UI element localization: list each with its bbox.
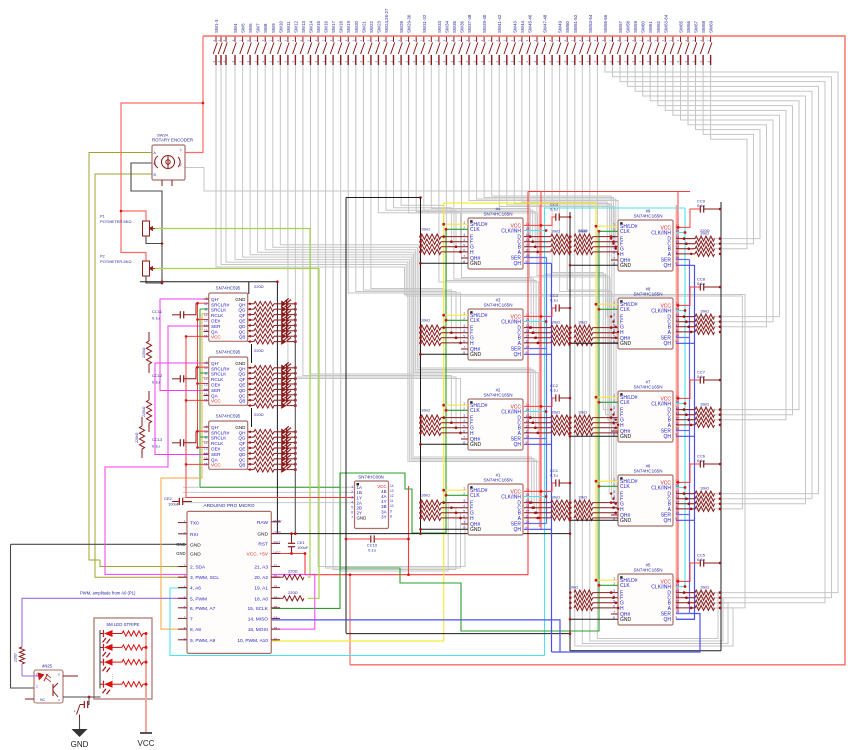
resistor R pull right #9 row 3 — [695, 251, 715, 256]
junction gnd stub dot #1 — [419, 528, 422, 531]
wire SW wire to U-R1 input 0 — [522, 65, 611, 317]
wire green hc00 link1 — [412, 532, 446, 534]
svg-text:QH': QH' — [211, 425, 219, 430]
resistor R pull #3 left row 1 — [421, 330, 441, 335]
resistor R pull #5 left row 1 — [574, 595, 593, 600]
wire VCC branch to potmeters — [121, 103, 203, 261]
svg-text:0.1u: 0.1u — [697, 557, 705, 562]
svg-text:QA: QA — [211, 457, 219, 462]
wire VCC right column bus thick — [675, 205, 677, 610]
switch symbol at x=265 — [262, 36, 266, 65]
switch symbol at x=409 — [406, 36, 410, 65]
wire wire #6 right row 1 — [676, 498, 695, 500]
svg-text:GND: GND — [235, 361, 246, 366]
resistor R pull right #6 row 1 — [695, 496, 715, 501]
svg-text:1: 1 — [351, 485, 353, 489]
junction maze dot (689,249) — [688, 248, 690, 250]
svg-text:0.1u: 0.1u — [368, 548, 376, 553]
IC shift register U3 SN74HC595 — [209, 421, 248, 469]
capacitor CC11 0.1u — [179, 311, 181, 318]
wire wire led 2,5 — [274, 458, 281, 460]
wire blue QH stub #6 — [676, 519, 695, 521]
wire green 595 branch — [200, 486, 340, 488]
wire gnd bottom rail — [346, 633, 570, 635]
junction gnd junction topleft — [419, 196, 422, 199]
junction maze dot (689,420) — [688, 419, 690, 421]
wire SW wire to U-R4 right input 0 — [597, 65, 718, 639]
junction pin dot 2,1 — [249, 436, 251, 438]
junction dot mid common 3 #3 — [569, 342, 572, 345]
junction dot mid common 1 #4 — [569, 240, 572, 243]
junction dot #5 left pin 3 — [617, 607, 620, 610]
wire VCC top bus / right edge / bottom — [203, 36, 845, 665]
switch symbol at x=477 — [474, 36, 478, 65]
junction dot mid common 0 #3 — [569, 326, 572, 329]
junction green junction #7 — [598, 401, 601, 404]
svg-text:SW31-32: SW31-32 — [422, 14, 427, 33]
junction dot #4 left common 2 — [419, 246, 422, 249]
wire wire 595 out 2,1 — [248, 436, 254, 438]
svg-text:SW53-54: SW53-54 — [588, 14, 593, 33]
LED D2 — [281, 306, 286, 313]
resistor R pull mid-left #1 row 3 — [551, 515, 571, 520]
wire SW wire to U-R4 right input 1 — [613, 65, 832, 598]
wire SW wire to U-L2 input 0 — [311, 65, 444, 418]
wire orange rclk stub3 — [202, 441, 209, 443]
wire arduino pin stub 4, A6 — [178, 587, 187, 589]
resistor R pull #4 left row 1 — [421, 239, 441, 244]
svg-text:QB: QB — [239, 463, 246, 468]
junction maze dot (614,322) — [612, 321, 614, 323]
svg-text:GND: GND — [235, 425, 246, 430]
LED cathode bar group 1 — [286, 364, 288, 402]
wire SW wire to U-R4 right input 1 — [590, 65, 723, 641]
LED D20 — [281, 445, 286, 452]
switch symbol at x=620 — [617, 36, 621, 65]
wire blue left SER bus — [546, 258, 548, 524]
svg-text:220Ω: 220Ω — [578, 228, 588, 233]
svg-text:TX0: TX0 — [190, 521, 199, 527]
wire yellow SH/LD stub #5 — [596, 579, 618, 581]
wire arduino right stub 19, A1 — [271, 587, 280, 589]
wire SW wire to U-R0 input 2 — [477, 65, 616, 249]
switch symbol at x=416 — [413, 36, 417, 65]
wire wire led 0,6 — [274, 335, 281, 337]
switch symbol at x=439 — [436, 36, 440, 65]
wire ce2 left — [172, 501, 180, 503]
svg-text:9: 9 — [390, 509, 392, 513]
svg-text:13: 13 — [390, 489, 394, 493]
svg-text:10kΩ: 10kΩ — [421, 319, 430, 323]
wire blue SER stub #7 — [676, 430, 690, 432]
svg-text:220kΩ: 220kΩ — [142, 347, 146, 358]
svg-text:SW17: SW17 — [331, 20, 336, 33]
junction yellow junction #8 — [595, 303, 598, 306]
wire olive encoder A — [89, 153, 152, 561]
resistor R 220 out 1,1 — [254, 371, 274, 376]
junction led bus dot 2,1 — [294, 436, 297, 439]
resistor R pull mid-right row 3 #3 — [574, 340, 593, 345]
junction pin dot 1,1 — [249, 372, 251, 374]
svg-text:VCC: VCC — [211, 399, 221, 404]
switch symbol at x=545 — [542, 36, 546, 65]
wire gnd stub #5 — [570, 618, 618, 620]
wire arduino right stub 15, SCLK — [271, 607, 280, 609]
IC microcontroller ARDUINO PRO MICRO — [187, 511, 271, 653]
wire wire right-col feed row 2 #2 — [593, 427, 618, 429]
junction dot #4 right pin 3 — [536, 251, 539, 254]
wire arduino pin stub TX0 — [178, 522, 187, 524]
switch symbol at x=258 — [255, 36, 259, 65]
wire wire #2 left row 1 — [441, 422, 468, 424]
wire blue SER stub #4 — [524, 257, 547, 259]
wire wire #5 left row 0 — [593, 592, 618, 594]
junction maze dot (689,327) — [688, 326, 690, 328]
wire SW wire to U-L0 input 0 — [401, 65, 444, 237]
wire cyan stub #9 — [676, 232, 685, 234]
svg-text:3: 3 — [351, 495, 353, 499]
wire red srclr stub y320 — [198, 319, 210, 321]
svg-text:0.1u: 0.1u — [550, 473, 558, 478]
junction red vcc junction 464 — [185, 463, 188, 466]
junction led bus dot 0,2 — [294, 313, 297, 316]
svg-text:SW18: SW18 — [339, 20, 344, 33]
capacitor CE2 — [178, 498, 180, 505]
resistor R pull mid-left #1 row 2 — [551, 510, 571, 515]
resistor stripe resistor 2 — [122, 660, 143, 665]
junction dot right common #6 0 — [719, 492, 722, 495]
wire wire led out 0,5 — [287, 330, 296, 332]
wire yellow bottom run to arduino pin10 — [271, 640, 444, 642]
svg-text:10kΩ: 10kΩ — [569, 586, 578, 590]
wire SW wire to U-R4 right input 3 — [575, 65, 733, 646]
svg-text:SW39-40: SW39-40 — [482, 14, 487, 33]
wire yellow right column bus — [595, 203, 597, 580]
svg-text:GND: GND — [620, 434, 632, 440]
wire SW wire to U-L0 right input 1 — [424, 65, 533, 242]
svg-text:SN74HC165N: SN74HC165N — [633, 385, 662, 390]
svg-text:10kΩ: 10kΩ — [700, 310, 709, 314]
wire yellow top rail — [444, 202, 596, 204]
wire green left column bus — [445, 229, 447, 533]
junction dot mid common 0 #2 — [569, 416, 572, 419]
switch symbol at x=529 — [527, 36, 531, 65]
junction dot mid common 1 #2 — [569, 421, 572, 424]
switch symbol at x=280 — [278, 36, 282, 65]
wire blue QH stub #7 — [676, 435, 695, 437]
junction vcc dot #2 — [540, 405, 543, 408]
svg-text:QC: QC — [239, 329, 247, 334]
resistor R pull mid-right row 2 #4 — [574, 244, 593, 249]
wire cap wire #3 — [559, 307, 570, 309]
junction dot #5 right pin 0 — [683, 591, 686, 594]
wire red srclr stub y448 — [198, 447, 210, 449]
svg-text:13: 13 — [204, 446, 208, 450]
resistor R 220 out 0,1 — [254, 307, 274, 312]
svg-text:POTMETER-5KΩ: POTMETER-5KΩ — [100, 219, 131, 224]
resistor R pull mid-right row 3 #1 — [574, 515, 593, 520]
wire SW wire to U-L1 right input 1 — [454, 65, 534, 333]
resistor R 220 out 2,4 — [254, 451, 274, 456]
svg-text:4, A6: 4, A6 — [190, 586, 201, 592]
junction dot #1 left pin 0 — [442, 501, 445, 504]
junction gnd junction bottom — [569, 632, 572, 635]
resistor R 220 out 0,4 — [254, 323, 274, 328]
wire wire led 0,2 — [274, 314, 281, 316]
wire wire #9 right row 3 — [676, 253, 695, 255]
wire wire led 0,3 — [274, 319, 281, 321]
junction maze dot (618,332) — [617, 331, 619, 333]
resistor R pull mid-right row 3 #4 — [574, 249, 593, 254]
svg-text:QH: QH — [664, 263, 672, 269]
svg-text:QG: QG — [238, 436, 246, 441]
junction gnd stub dot #9 — [569, 264, 572, 267]
resistor R pull #4 left row 0 — [421, 234, 441, 239]
svg-text:SW67: SW67 — [694, 20, 699, 33]
junction pin dot 1,3 — [249, 383, 251, 385]
resistor R pull right #6 row 0 — [695, 491, 715, 496]
svg-text:SW15: SW15 — [316, 20, 321, 33]
svg-text:QD: QD — [239, 388, 247, 393]
resistor R pull mid-left #4 row 3 — [551, 249, 571, 254]
junction maze dot (451,242) — [450, 241, 452, 243]
wire wire #4 right row 1 — [524, 241, 551, 243]
wire wire led 2,6 — [274, 463, 281, 465]
svg-text:220Ω: 220Ω — [14, 653, 18, 662]
wire SW wire to U-R2 input 2 — [537, 65, 616, 420]
wire SW wire to U-R4 right input 2 — [620, 65, 825, 603]
svg-text:3: 3 — [613, 313, 615, 317]
wire SW wire to U-R0 right input 2 — [689, 65, 747, 249]
wire 595 stub 0,5 — [204, 325, 209, 327]
wire gnd top rail — [346, 197, 421, 199]
svg-text:SW66: SW66 — [686, 20, 691, 33]
capacitor CC12 0.1u — [179, 375, 181, 382]
wire VCC left column riser — [527, 192, 529, 575]
svg-text:13: 13 — [204, 318, 208, 322]
IC shift register #3 SN74HC165N — [468, 309, 523, 360]
junction dot right-col pin 2 #4 — [615, 246, 618, 249]
junction dot right-col pin 1 #3 — [612, 331, 615, 334]
LED D19 — [281, 439, 286, 446]
wire cap gnd wire2 — [80, 704, 84, 706]
junction dot right-col pin 1 #4 — [612, 240, 615, 243]
junction maze dot (536,338) — [535, 337, 537, 339]
svg-text:SW60: SW60 — [641, 20, 646, 33]
wire wire led 2,1 — [274, 436, 281, 438]
svg-text:8: 8 — [390, 514, 392, 518]
junction maze dot (535,247) — [534, 246, 536, 248]
wire SW wire to U-L1 input 1 — [363, 65, 451, 333]
junction pin dot 1,7 — [249, 404, 251, 406]
svg-text:SW22: SW22 — [369, 20, 374, 33]
svg-text:21, A3: 21, A3 — [254, 565, 268, 571]
svg-text:10: 10 — [204, 366, 208, 370]
junction red junction 303 — [196, 302, 199, 305]
svg-text:P2: P2 — [100, 255, 105, 259]
svg-text:CLK/INH: CLK/INH — [651, 485, 671, 491]
junction cyan dot #7 — [684, 402, 687, 405]
junction maze dot (616,420) — [615, 419, 617, 421]
LED D24 — [281, 466, 286, 473]
junction dot #5 left pin 1 — [612, 596, 615, 599]
svg-text:SW50: SW50 — [565, 20, 570, 33]
wire wire #6 right row 2 — [676, 503, 695, 505]
junction dot #4 left common 0 — [419, 235, 422, 238]
svg-text:220Ω: 220Ω — [254, 348, 264, 353]
wire blue QH stub #3 — [524, 353, 552, 355]
junction maze dot (689,504) — [688, 503, 690, 505]
resistor R pull mid-left #4 row 0 — [551, 234, 571, 239]
resistor R pull mid-left #2 row 2 — [551, 425, 571, 430]
svg-text:ARDUINO PRO MICRO: ARDUINO PRO MICRO — [203, 503, 254, 509]
wire wire right-col feed row 3 #3 — [593, 342, 618, 344]
wire vcc bar — [140, 732, 152, 734]
switch symbol at x=371 — [368, 36, 372, 65]
junction led bus dot 0,4 — [294, 324, 297, 327]
svg-text:QF: QF — [239, 441, 246, 446]
wire green srclk stub2 — [200, 372, 209, 374]
wire gnd stub #3 — [421, 353, 469, 355]
svg-text:10kΩ: 10kΩ — [578, 321, 587, 325]
wire wire 595 out 0,2 — [248, 314, 254, 316]
wire SW wire to U-L1 right input 2 — [446, 65, 536, 338]
junction red junction 367 — [196, 366, 199, 369]
resistor R 220 out 1,7 — [254, 403, 274, 408]
resistor R pull mid-left #2 row 3 — [551, 430, 571, 435]
junction maze dot (686,415) — [685, 414, 687, 416]
junction dot right-col pin 0 #4 — [610, 235, 613, 238]
switch symbol at x=356 — [353, 36, 357, 65]
junction dot #1 left pin 1 — [450, 506, 453, 509]
svg-text:12: 12 — [390, 494, 394, 498]
junction dot #2 left pin 2 — [455, 427, 458, 430]
svg-text:QH: QH — [239, 430, 246, 435]
wire wire #3 left row 0 — [441, 327, 468, 329]
wire wire #4 right row 2 — [524, 246, 551, 248]
switch symbol at x=250 — [247, 36, 251, 65]
junction dot #1 right pin 2 — [534, 512, 537, 515]
svg-text:0.1u: 0.1u — [697, 281, 705, 286]
junction dot mid common 2 #2 — [569, 427, 572, 430]
svg-text:CLK: CLK — [620, 583, 630, 589]
svg-text:VCC: VCC — [211, 335, 221, 340]
switch symbol at x=221 — [218, 36, 222, 65]
wire 595 gnd link 2 — [251, 408, 253, 427]
junction dot right-col pin 1 #2 — [612, 421, 615, 424]
junction dot right-col pin 2 #2 — [615, 427, 618, 430]
switch symbol at x=446 — [444, 36, 448, 65]
junction led bus dot 0,3 — [294, 319, 297, 322]
wire arduino right stub RAW — [271, 521, 280, 523]
svg-text:SW20: SW20 — [354, 20, 359, 33]
wire blue SER stub #2 — [524, 438, 547, 440]
capacitor CC10 0.1u — [370, 535, 372, 542]
wire SW wire to U-L0 right input 0 — [431, 65, 530, 237]
resistor R pull mid-left #2 row 1 — [551, 420, 571, 425]
wire wire 220k bottom 2 — [141, 449, 143, 458]
svg-text:SW41-42: SW41-42 — [497, 14, 502, 33]
svg-text:8, A8: 8, A8 — [190, 627, 201, 633]
wire gnd stub #1 — [421, 528, 469, 530]
wire wire 595 out 1,0 — [248, 367, 254, 369]
wire SW wire to U-R2 input 0 — [552, 65, 611, 410]
junction maze dot (691,509) — [690, 508, 692, 510]
resistor R 220 out 0,5 — [254, 328, 274, 333]
wire 4n25 pin1 wire — [22, 675, 38, 677]
wire wire #8 right row 2 — [676, 326, 695, 328]
junction dot right common #8 0 — [719, 315, 722, 318]
svg-text:CLK: CLK — [470, 227, 480, 233]
wire ce2 right — [183, 501, 192, 503]
svg-text:15, SCLK: 15, SCLK — [247, 606, 268, 612]
junction led bus dot 2,7 — [294, 468, 297, 471]
wire SW wire to U-L2 input 3 — [288, 65, 461, 433]
wire olive encoder B — [95, 174, 187, 577]
wire wire led out 2,3 — [287, 447, 296, 449]
wire stripe res wire2 0 — [143, 633, 146, 635]
junction maze dot (691,608) — [690, 607, 692, 609]
junction dot right-col pin 0 #1 — [610, 501, 613, 504]
wire qh# stub #9 — [611, 259, 618, 261]
resistor R 220 out 0,3 — [254, 318, 274, 323]
junction stripe dot 0 — [145, 632, 148, 635]
junction led bus dot 2,2 — [294, 441, 297, 444]
junction dot #4 left common 3 — [419, 251, 422, 254]
wire wire arduino res 598 — [271, 597, 283, 599]
junction maze dot (456,247) — [455, 246, 457, 248]
junction dot #6 right pin 2 — [688, 503, 691, 506]
svg-text:SRCLK: SRCLK — [211, 436, 227, 441]
junction cap gnd dot #1 — [569, 482, 572, 485]
wire SW wire to U-L3 input 3 — [318, 65, 465, 567]
wire green CLK stub #1 — [446, 494, 468, 496]
wire vcc wire #8 — [676, 287, 700, 305]
capacitor CC3 0.1u — [555, 304, 557, 311]
svg-text:QH': QH' — [211, 297, 219, 302]
wire wire arduino res 577 — [271, 576, 283, 578]
svg-text:SW68: SW68 — [701, 20, 706, 33]
junction dot #4 right pin 1 — [531, 240, 534, 243]
wire wire 595 out 0,1 — [248, 308, 254, 310]
junction dot right common #7 3 — [719, 424, 722, 427]
junction dot #4 left pin 2 — [455, 246, 458, 249]
junction pin dot 0,6 — [249, 335, 251, 337]
svg-text:SW49: SW49 — [558, 20, 563, 33]
junction dot right-col pin 3 #2 — [617, 432, 620, 435]
svg-text:SRCLR#: SRCLR# — [211, 430, 230, 435]
junction dot #4 left pin 0 — [442, 235, 445, 238]
svg-text:PWM, amplitude from A0 (P1): PWM, amplitude from A0 (P1) — [80, 591, 136, 596]
junction vcc dot #8 — [677, 304, 680, 307]
junction dot mid common 0 #1 — [569, 501, 572, 504]
IC shift register U1 SN74HC595 — [209, 293, 248, 341]
wire SW wire to U-R0 input 3 — [469, 65, 618, 254]
wire wire led out 1,7 — [287, 405, 296, 407]
switch symbol at x=537 — [534, 36, 538, 65]
wire qh# stub #5 — [611, 613, 618, 615]
junction led bus dot 2,0 — [294, 430, 297, 433]
LED D4 — [281, 317, 286, 324]
switch symbol at x=597 — [595, 36, 599, 65]
junction green junction #4 — [445, 228, 448, 231]
wire ce1 bot — [291, 547, 293, 554]
svg-text:16: 16 — [204, 399, 208, 403]
junction dot #2 left pin 3 — [459, 432, 462, 435]
svg-text:6: 6 — [613, 250, 615, 254]
switch symbol at x=454 — [451, 36, 455, 65]
svg-text:SN74HC00N: SN74HC00N — [358, 475, 383, 480]
